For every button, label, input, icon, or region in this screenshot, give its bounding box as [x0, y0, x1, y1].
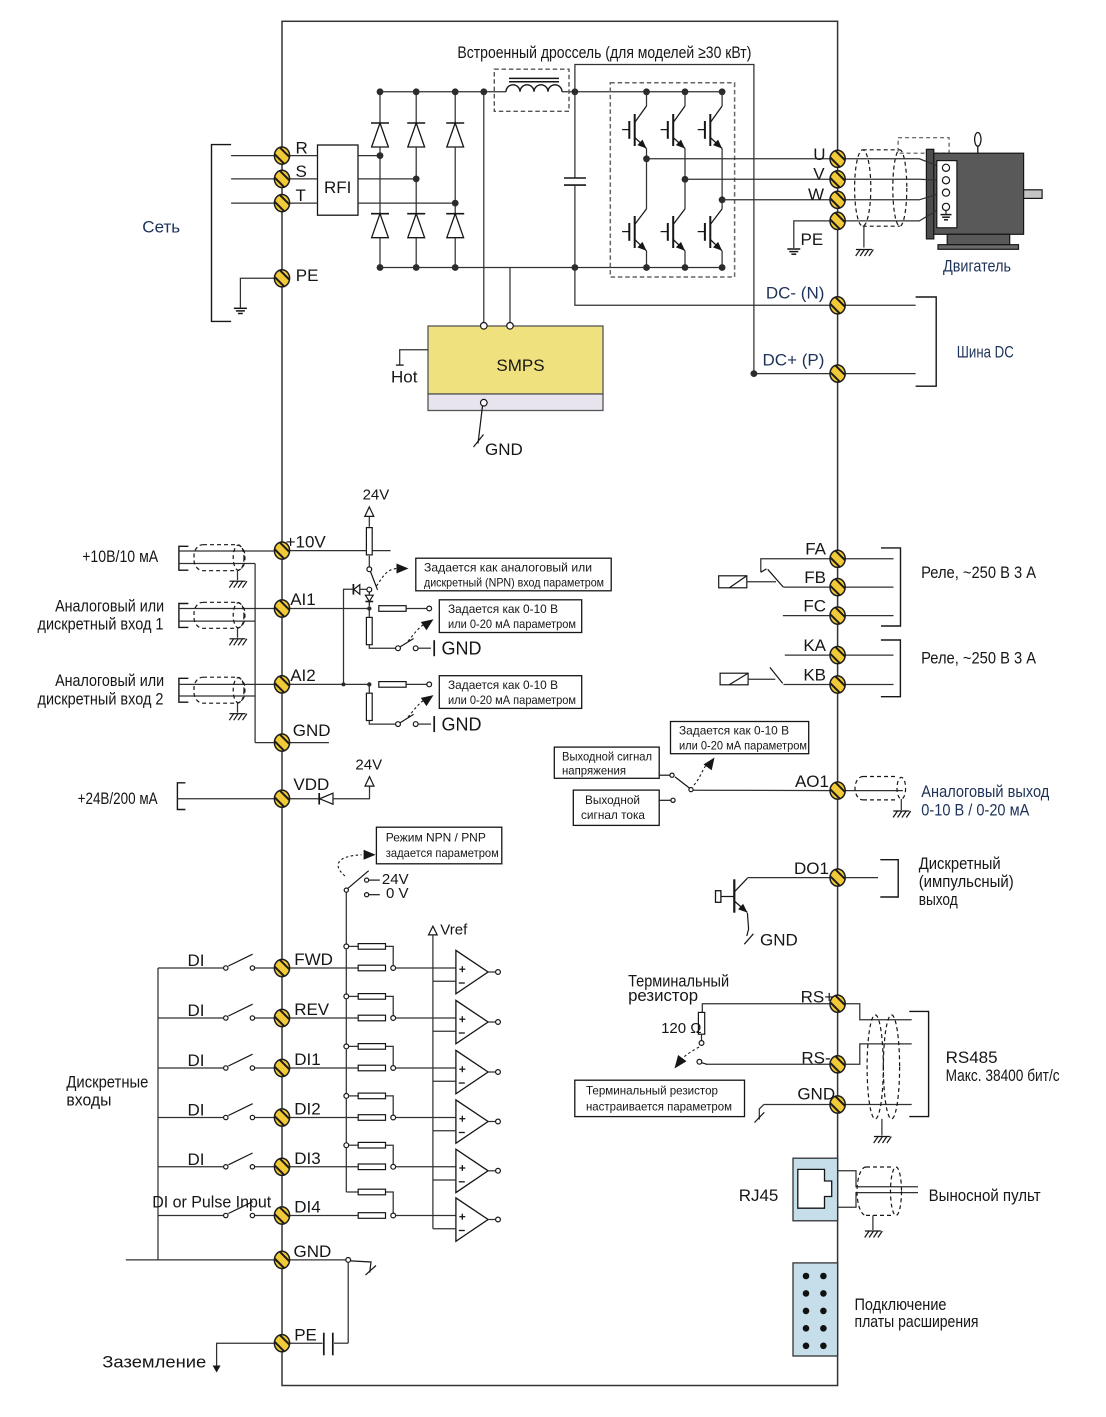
svg-text:Реле, ~250 В 3 А: Реле, ~250 В 3 А — [921, 649, 1037, 668]
svg-text:входы: входы — [66, 1091, 111, 1110]
svg-text:DC- (N): DC- (N) — [766, 284, 825, 303]
svg-text:0 V: 0 V — [386, 885, 409, 902]
svg-text:GND: GND — [485, 440, 523, 459]
svg-text:выход: выход — [919, 890, 958, 909]
svg-text:+10V: +10V — [286, 533, 327, 552]
svg-text:GND: GND — [294, 1242, 332, 1261]
svg-text:PE: PE — [296, 266, 319, 285]
svg-text:резистор: резистор — [628, 986, 698, 1005]
svg-text:DI3: DI3 — [294, 1149, 320, 1168]
svg-text:дискретный вход 2: дискретный вход 2 — [38, 690, 164, 709]
svg-text:VDD: VDD — [293, 775, 329, 794]
svg-text:дискретный (NPN) вход параметр: дискретный (NPN) вход параметром — [424, 576, 604, 590]
svg-text:Задается как 0-10 В: Задается как 0-10 В — [679, 724, 789, 738]
svg-text:120 Ω: 120 Ω — [661, 1020, 701, 1037]
svg-text:RS-: RS- — [801, 1048, 830, 1067]
svg-text:RS485: RS485 — [946, 1048, 998, 1067]
svg-text:платы расширения: платы расширения — [855, 1312, 979, 1331]
svg-text:24V: 24V — [355, 756, 382, 773]
svg-text:Дискретные: Дискретные — [66, 1073, 148, 1092]
svg-text:RJ45: RJ45 — [739, 1186, 779, 1205]
svg-text:GND: GND — [760, 931, 798, 950]
svg-text:U: U — [813, 145, 825, 164]
svg-text:FC: FC — [803, 597, 826, 616]
svg-text:или 0-20 мА параметром: или 0-20 мА параметром — [448, 617, 576, 631]
svg-text:FWD: FWD — [294, 950, 333, 969]
svg-text:GND: GND — [442, 639, 482, 659]
svg-text:PE: PE — [801, 230, 824, 249]
svg-text:DO1: DO1 — [794, 859, 829, 878]
svg-text:R: R — [296, 139, 308, 158]
svg-text:FA: FA — [805, 540, 826, 559]
svg-text:(импульсный): (импульсный) — [919, 872, 1014, 891]
svg-text:DC+ (P): DC+ (P) — [763, 351, 825, 370]
svg-text:Двигатель: Двигатель — [943, 256, 1011, 275]
svg-text:+24В/200 мА: +24В/200 мА — [78, 789, 159, 808]
svg-text:DI4: DI4 — [294, 1198, 320, 1217]
svg-text:24V: 24V — [363, 486, 390, 503]
svg-text:задается параметром: задается параметром — [386, 846, 499, 860]
svg-text:AI1: AI1 — [290, 590, 316, 609]
svg-text:Встроенный дроссель (для модел: Встроенный дроссель (для моделей ≥30 кВт… — [457, 43, 751, 62]
svg-text:W: W — [808, 185, 824, 204]
svg-text:настраивается параметром: настраивается параметром — [586, 1100, 732, 1114]
svg-text:Задается как 0-10 В: Задается как 0-10 В — [448, 678, 558, 692]
svg-text:Задается как 0-10 В: Задается как 0-10 В — [448, 602, 558, 616]
svg-text:T: T — [296, 186, 306, 205]
svg-text:GND: GND — [797, 1085, 835, 1104]
svg-text:DI: DI — [188, 951, 205, 970]
svg-text:напряжения: напряжения — [562, 764, 626, 778]
svg-text:Сеть: Сеть — [142, 218, 180, 237]
svg-text:FB: FB — [804, 568, 826, 587]
svg-text:DI: DI — [188, 1001, 205, 1020]
svg-text:или 0-20 мА параметром: или 0-20 мА параметром — [448, 693, 576, 707]
svg-text:V: V — [813, 164, 825, 183]
svg-text:AI2: AI2 — [290, 666, 316, 685]
svg-text:KB: KB — [803, 665, 826, 684]
svg-text:+10В/10 мА: +10В/10 мА — [82, 547, 159, 566]
svg-text:Макс. 38400 бит/с: Макс. 38400 бит/с — [946, 1066, 1060, 1085]
svg-text:GND: GND — [293, 721, 331, 740]
svg-text:Выносной пульт: Выносной пульт — [929, 1186, 1041, 1205]
svg-text:0-10 В / 0-20 мА: 0-10 В / 0-20 мА — [921, 800, 1030, 819]
svg-text:DI1: DI1 — [294, 1050, 320, 1069]
svg-text:AO1: AO1 — [795, 772, 829, 791]
svg-text:Режим NPN / PNP: Режим NPN / PNP — [386, 831, 486, 845]
svg-text:REV: REV — [294, 1000, 330, 1019]
svg-text:Шина DC: Шина DC — [957, 342, 1014, 361]
svg-text:GND: GND — [442, 715, 482, 735]
svg-text:Выходной сигнал: Выходной сигнал — [562, 750, 652, 764]
svg-text:или 0-20 мА параметром: или 0-20 мА параметром — [679, 739, 807, 753]
svg-text:DI: DI — [188, 1051, 205, 1070]
svg-text:Аналоговый выход: Аналоговый выход — [921, 782, 1049, 801]
svg-text:Аналоговый или: Аналоговый или — [55, 671, 164, 690]
svg-text:Hot: Hot — [391, 368, 418, 387]
svg-text:DI or Pulse Input: DI or Pulse Input — [152, 1193, 271, 1212]
svg-text:PE: PE — [294, 1325, 317, 1344]
svg-text:SMPS: SMPS — [496, 356, 544, 375]
svg-text:Дискретный: Дискретный — [919, 854, 1001, 873]
svg-text:RFI: RFI — [324, 178, 351, 197]
svg-text:Выходной: Выходной — [585, 793, 640, 807]
svg-text:DI: DI — [188, 1150, 205, 1169]
svg-text:сигнал тока: сигнал тока — [581, 808, 645, 822]
svg-text:DI: DI — [188, 1101, 205, 1120]
svg-text:Терминальный резистор: Терминальный резистор — [586, 1084, 718, 1098]
svg-text:Аналоговый или: Аналоговый или — [55, 596, 164, 615]
svg-text:Vref: Vref — [440, 922, 468, 939]
svg-text:S: S — [296, 162, 307, 181]
svg-text:Задается как аналоговый или: Задается как аналоговый или — [424, 561, 592, 575]
svg-text:Заземление: Заземление — [102, 1353, 206, 1372]
svg-text:RS+: RS+ — [801, 988, 835, 1007]
svg-text:дискретный вход 1: дискретный вход 1 — [38, 615, 164, 634]
svg-text:DI2: DI2 — [294, 1100, 320, 1119]
svg-text:KA: KA — [803, 636, 826, 655]
svg-text:Реле, ~250 В 3 А: Реле, ~250 В 3 А — [921, 563, 1037, 582]
